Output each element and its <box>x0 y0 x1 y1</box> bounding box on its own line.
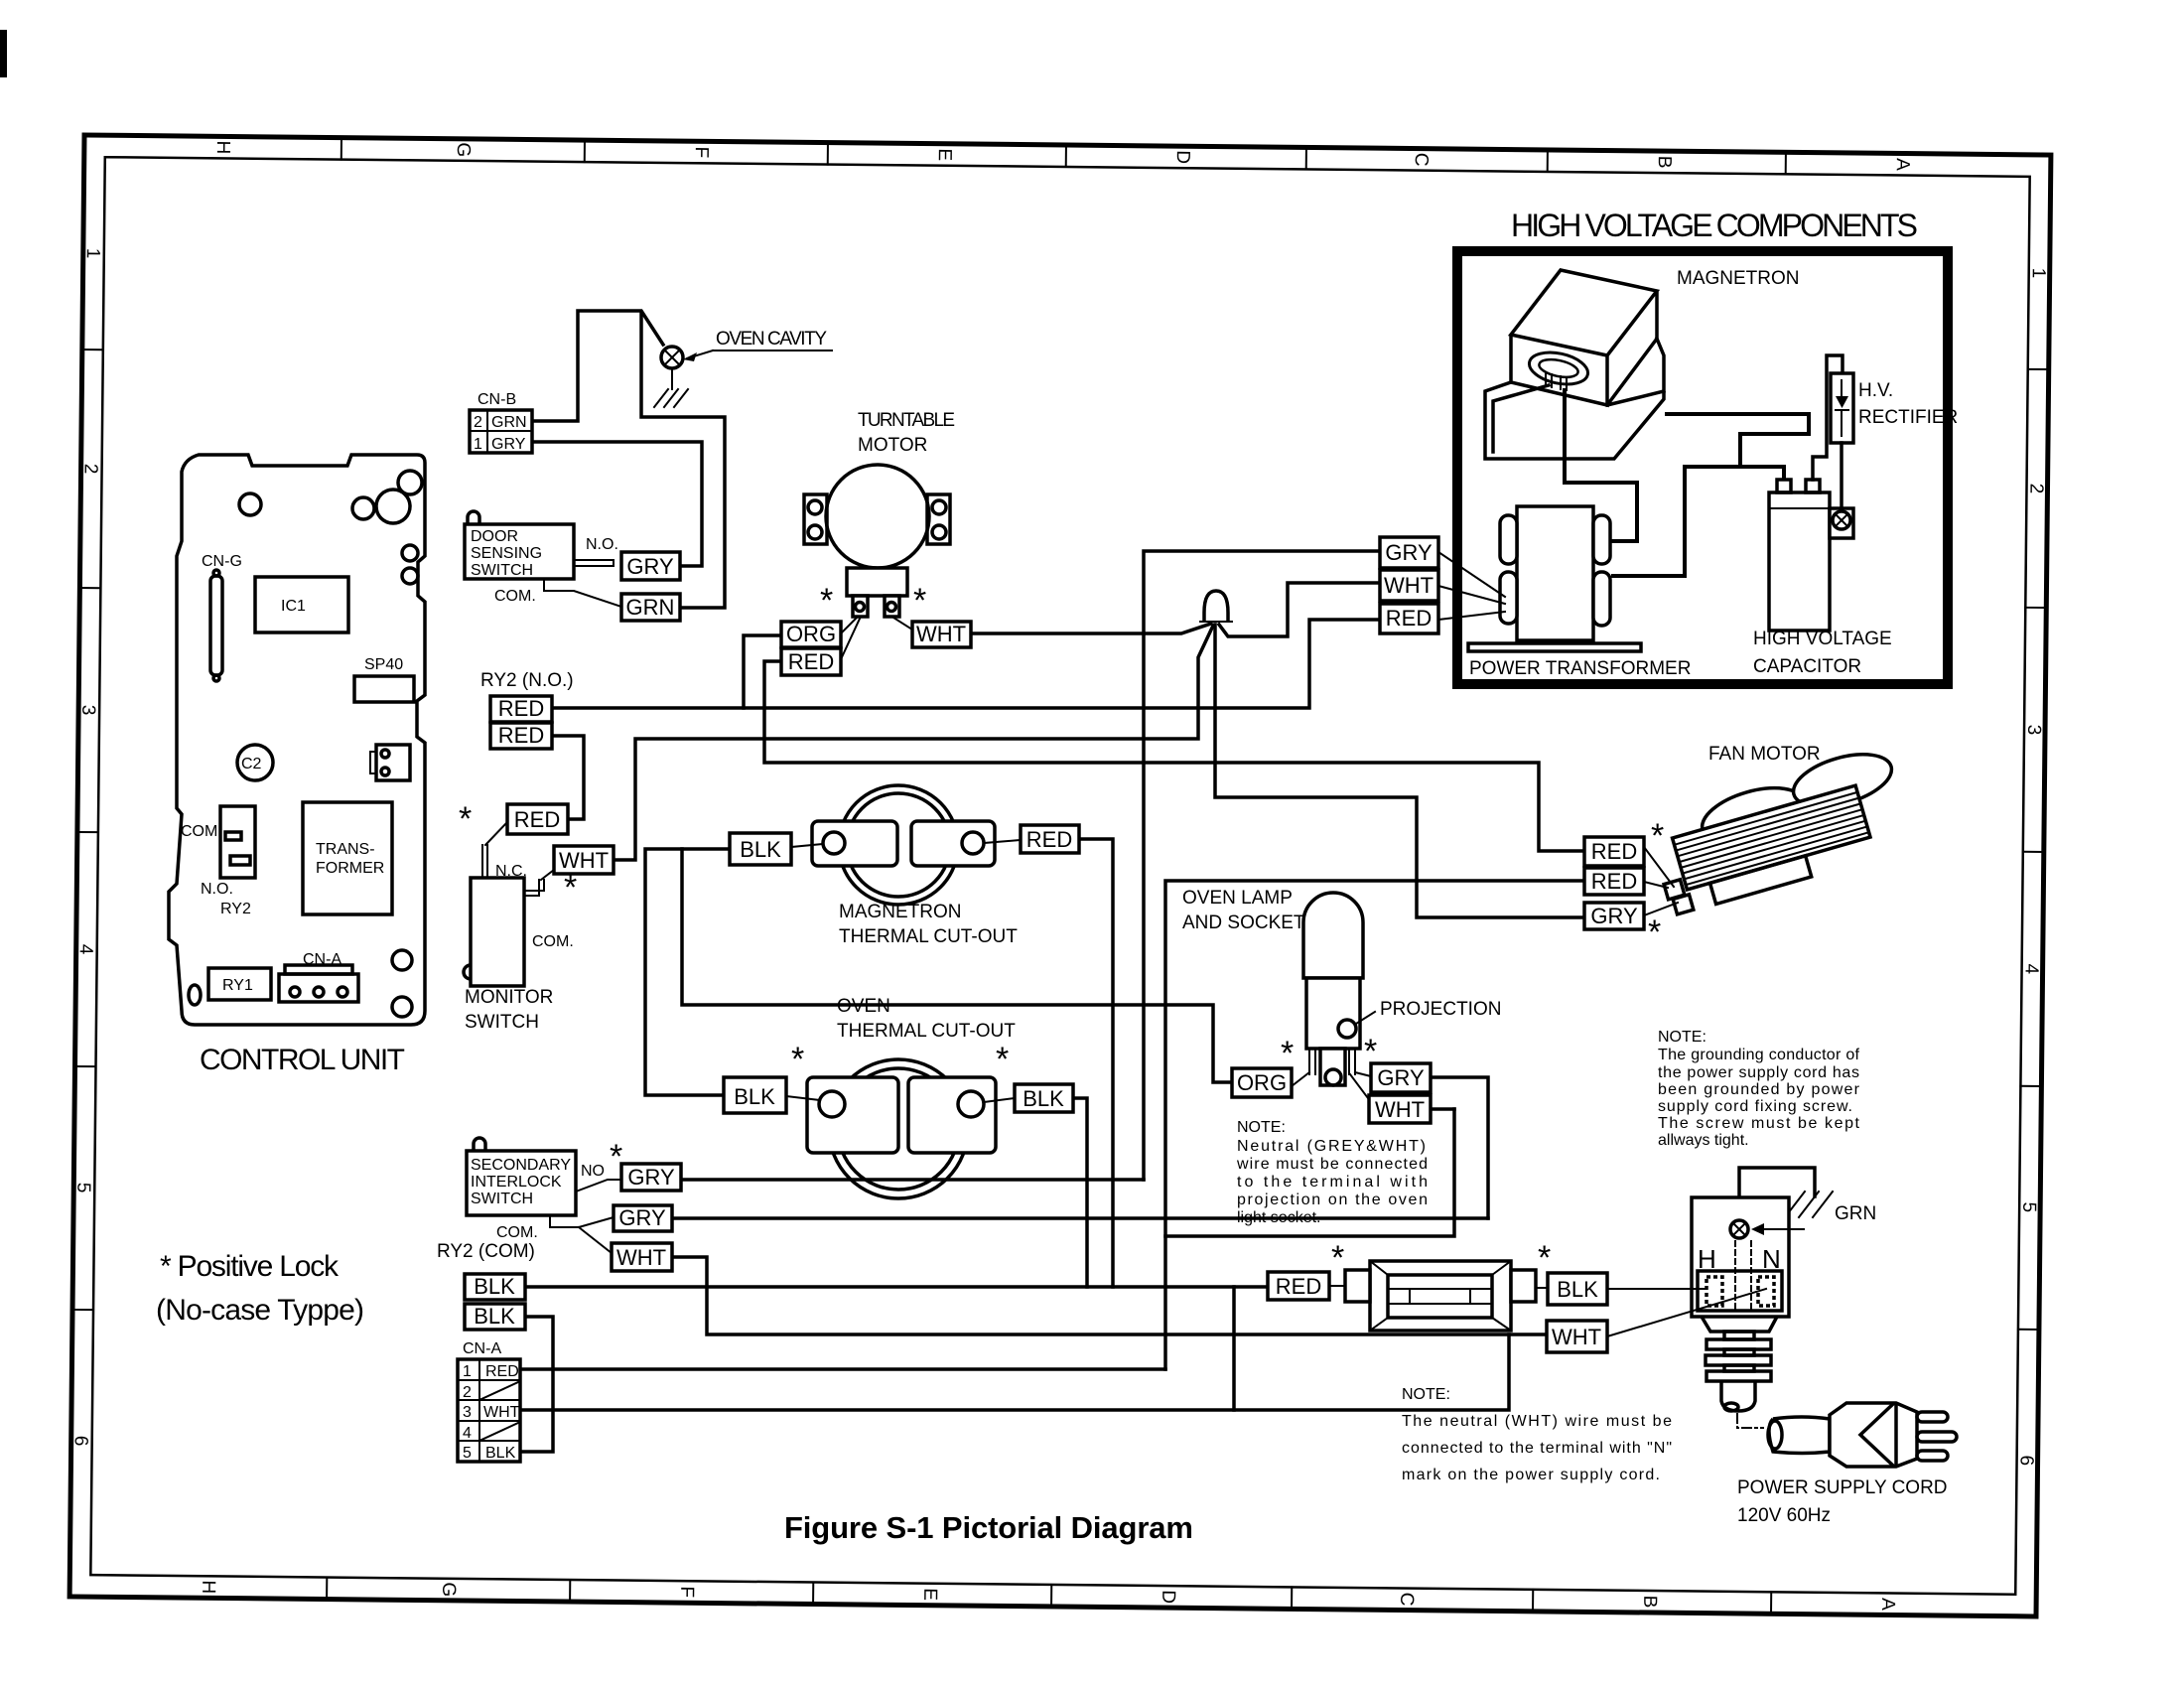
plug chevron <box>1860 1403 1896 1467</box>
svg-text:BLK: BLK <box>474 1274 515 1299</box>
svg-text:C: C <box>1396 1593 1417 1607</box>
svg-text:BLK: BLK <box>1023 1086 1064 1111</box>
svg-text:THERMAL CUT-OUT: THERMAL CUT-OUT <box>839 926 1018 947</box>
svg-text:RED: RED <box>1026 827 1072 852</box>
interlock NO lever <box>576 1180 621 1192</box>
oven cutout left terminal <box>807 1077 898 1153</box>
filter right terminal <box>1511 1270 1536 1302</box>
svg-text:N.O.: N.O. <box>586 536 618 553</box>
svg-text:RED: RED <box>485 1363 519 1380</box>
PCB hole top right large <box>376 490 410 523</box>
svg-text:RED: RED <box>498 696 544 721</box>
BLK box RY2COM 1 <box>465 1274 525 1300</box>
wire WHT to N terminal diagonal <box>1607 1289 1766 1336</box>
CN-A connector pcb <box>285 965 352 974</box>
svg-text:RED: RED <box>1591 839 1637 864</box>
wire lamp GRY return <box>1431 1077 1488 1218</box>
CN-A connector body <box>458 1359 520 1462</box>
wire BLK to H terminal <box>1607 1288 1706 1290</box>
svg-text:BLK: BLK <box>485 1445 516 1462</box>
capacitor terminals <box>1777 480 1791 492</box>
dash-dot wire to plug cord <box>1737 1414 1763 1428</box>
svg-text:5: 5 <box>2018 1201 2039 1212</box>
svg-text:H: H <box>198 1580 218 1594</box>
svg-text:COM.: COM. <box>181 823 222 840</box>
ORG box turntable <box>781 622 841 647</box>
svg-text:ORG: ORG <box>1237 1070 1287 1095</box>
PCB hole left <box>239 493 261 515</box>
svg-text:B: B <box>1654 156 1675 169</box>
RED box turntable <box>781 648 841 675</box>
cord flanges <box>1724 1332 1754 1339</box>
svg-text:RECTIFIER: RECTIFIER <box>1858 407 1958 428</box>
svg-text:RY2: RY2 <box>220 901 251 917</box>
svg-text:BLK: BLK <box>734 1084 775 1109</box>
svg-text:light socket.: light socket. <box>1237 1209 1320 1226</box>
svg-text:RED: RED <box>1591 869 1637 894</box>
receptacle screw <box>1730 1220 1748 1238</box>
svg-text:CONTROL UNIT: CONTROL UNIT <box>200 1044 405 1076</box>
link oven right BLK <box>984 1098 1015 1102</box>
monitor plunger <box>464 965 471 979</box>
svg-text:F: F <box>676 1586 697 1598</box>
svg-text:*: * <box>1648 913 1661 951</box>
magnetron thermal cutout disc <box>839 785 958 905</box>
svg-text:WHT: WHT <box>483 1404 520 1421</box>
link BLK to terminal <box>791 844 823 847</box>
svg-text:WHT: WHT <box>1375 1097 1425 1122</box>
PCB oval hole bottom left <box>189 985 201 1005</box>
BLK box plug <box>1548 1273 1607 1305</box>
border tick marks right <box>2018 369 2049 1330</box>
GRY box lamp <box>1371 1063 1431 1092</box>
svg-text:Neutral (GREY&WHT): Neutral (GREY&WHT) <box>1237 1138 1426 1155</box>
fan terminals <box>1664 880 1685 900</box>
border zone letters top <box>212 140 1913 172</box>
svg-text:RED: RED <box>498 723 544 748</box>
lead socket to WHT diagonal <box>1350 1074 1371 1102</box>
bulb base <box>1306 978 1360 1049</box>
PCB hole <box>398 471 422 494</box>
svg-text:GRN: GRN <box>491 414 527 431</box>
wire RY2NO RED2 to monitor RED <box>552 736 584 819</box>
link RED to filter <box>1329 1285 1345 1287</box>
receptacle neck <box>1702 1317 1777 1332</box>
svg-text:WHT: WHT <box>916 622 966 646</box>
svg-text:COM.: COM. <box>494 588 536 605</box>
RED box RY2NO 1 <box>490 696 552 722</box>
door switch COM lever <box>544 579 621 607</box>
svg-text:BLK: BLK <box>1557 1277 1598 1302</box>
transformer left coils <box>1500 515 1517 564</box>
ground symbol oven cavity <box>651 389 688 407</box>
svg-text:The grounding conductor of: The grounding conductor of <box>1658 1047 1860 1063</box>
receptacle body <box>1692 1197 1789 1317</box>
RY2 relay part <box>220 806 255 878</box>
PCB hole bottom <box>392 950 412 970</box>
svg-text:* Positive Lock: * Positive Lock <box>160 1250 340 1283</box>
svg-text:GRY: GRY <box>491 436 526 453</box>
NOTE neutral WHT plug <box>1402 1386 1672 1483</box>
wire nut to WHT power transformer <box>1219 583 1380 636</box>
SP40 part <box>354 676 414 702</box>
svg-text:POWER TRANSFORMER: POWER TRANSFORMER <box>1469 658 1691 679</box>
svg-text:N.C.: N.C. <box>495 863 527 880</box>
svg-text:RED: RED <box>1276 1274 1321 1299</box>
RED box magnetron cutout <box>1021 825 1079 853</box>
wire CN-B pin1 GRY to door sensing switch N.O. GRY <box>532 442 702 566</box>
svg-text:WHT: WHT <box>616 1245 666 1270</box>
H.V. rectifier body <box>1831 373 1853 443</box>
BLK box oven cutout left <box>724 1077 786 1113</box>
receptacle ground wire <box>1739 1168 1815 1224</box>
turntable left tab <box>804 494 827 544</box>
wire turntable RED to fan RED trunk <box>764 661 1584 851</box>
projection circle <box>1338 1020 1356 1038</box>
lead socket to GRY <box>1355 1072 1371 1076</box>
small part right <box>376 745 410 780</box>
monitor RED lever <box>482 822 507 878</box>
svg-text:GRY: GRY <box>1385 540 1433 565</box>
svg-text:RED: RED <box>1386 606 1432 631</box>
WHT box interlock <box>612 1243 672 1271</box>
border zone numbers right <box>2016 268 2049 1467</box>
svg-text:H: H <box>212 140 233 154</box>
svg-text:GRY: GRY <box>627 1165 675 1190</box>
svg-text:MAGNETRON: MAGNETRON <box>839 902 962 922</box>
svg-text:NO: NO <box>581 1163 605 1180</box>
wire oven cutout BLK right to BLK column <box>1073 1098 1087 1287</box>
link oven left BLK <box>786 1096 820 1100</box>
RED box power transformer <box>1380 604 1438 633</box>
svg-text:OVEN: OVEN <box>837 996 890 1017</box>
turntable base <box>847 568 907 596</box>
svg-text:mark on the power supply cor: mark on the power supply cord. <box>1402 1467 1660 1483</box>
svg-text:NOTE:: NOTE: <box>1658 1029 1706 1046</box>
WHT box power transformer <box>1380 570 1438 601</box>
svg-text:RY2 (COM): RY2 (COM) <box>437 1241 535 1262</box>
wire magnetron left pin <box>1493 385 1549 452</box>
svg-text:RED: RED <box>514 807 560 832</box>
CN-G connector <box>210 576 222 675</box>
svg-text:RED: RED <box>788 649 834 674</box>
inner border frame <box>90 157 2029 1595</box>
svg-text:6: 6 <box>2016 1455 2037 1466</box>
scan edge mark top-left <box>0 30 7 77</box>
wire turntable ORG drop to RED trunk <box>744 635 781 708</box>
svg-text:N.O.: N.O. <box>201 881 233 898</box>
RED box monitor <box>507 804 568 834</box>
RED box filter <box>1268 1272 1329 1300</box>
svg-text:allways tight.: allways tight. <box>1658 1132 1749 1149</box>
svg-text:SP40: SP40 <box>364 656 403 673</box>
wire interlock COM GRY <box>672 1216 1488 1220</box>
svg-text:4: 4 <box>463 1425 472 1442</box>
svg-text:*: * <box>564 869 577 907</box>
svg-text:SENSING: SENSING <box>471 545 542 562</box>
wire magnetron cutout RED drop <box>1079 839 1113 1287</box>
svg-text:WHT: WHT <box>1384 573 1433 598</box>
svg-text:RY2 (N.O.): RY2 (N.O.) <box>480 670 574 691</box>
ground symbol receptacle <box>1785 1192 1833 1217</box>
turntable right tab <box>927 494 950 544</box>
BLK box RY2COM 2 <box>465 1304 525 1330</box>
wire capacitor right terminal to rectifier <box>1813 355 1843 480</box>
oven cavity lamp lead <box>671 368 673 389</box>
svg-text:*: * <box>1331 1239 1344 1277</box>
svg-text:been grounded by power: been grounded by power <box>1658 1081 1860 1098</box>
wire interlock WHT to plug WHT <box>672 1257 1547 1334</box>
wire door GRN to oven cavity loop <box>641 314 725 608</box>
C2 capacitor <box>237 745 273 780</box>
wire secondary interlock GRY NO <box>681 1178 1144 1182</box>
svg-text:AND SOCKET: AND SOCKET <box>1182 912 1305 933</box>
wire CN-B pin2 GRN to oven cavity lamp <box>532 311 663 421</box>
RED box RY2NO 2 <box>490 723 552 749</box>
wire riser at lamp WHT column <box>1232 1287 1236 1410</box>
border zone letters bottom <box>198 1580 1898 1612</box>
link terminal to RED <box>984 840 1021 843</box>
cord stub <box>1721 1381 1755 1411</box>
wire magnetron center pin to transformer <box>1565 388 1637 541</box>
svg-text:SECONDARY: SECONDARY <box>471 1157 571 1174</box>
high voltage thick box <box>1457 251 1948 684</box>
door sensing switch body <box>465 524 574 579</box>
wire nut to monitor switch WHT <box>614 626 1213 860</box>
svg-text:NOTE:: NOTE: <box>1237 1119 1286 1136</box>
power plug body <box>1830 1403 1917 1467</box>
svg-text:3: 3 <box>77 705 98 716</box>
plug prongs <box>1917 1412 1948 1422</box>
svg-text:2: 2 <box>463 1384 472 1401</box>
svg-text:A: A <box>1892 158 1913 171</box>
wire oven lamp ORG feed <box>682 849 1232 1082</box>
svg-text:GRN: GRN <box>626 595 675 620</box>
svg-text:COM.: COM. <box>496 1224 538 1241</box>
control unit PCB outline <box>169 455 425 1025</box>
svg-text:E: E <box>919 1588 940 1601</box>
filter left terminal <box>1345 1270 1370 1302</box>
svg-text:FORMER: FORMER <box>316 860 384 877</box>
high voltage capacitor body <box>1769 492 1830 631</box>
RY1 part <box>208 968 271 1000</box>
svg-text:GRY: GRY <box>626 554 674 579</box>
oven cutout right terminal <box>908 1077 996 1153</box>
border zone numbers left <box>70 248 103 1447</box>
WHT box lamp <box>1369 1095 1431 1123</box>
svg-text:CN-B: CN-B <box>478 391 516 408</box>
svg-text:the power supply cord has: the power supply cord has <box>1658 1064 1859 1081</box>
svg-text:TRANS-: TRANS- <box>316 841 375 858</box>
GRN box door <box>621 594 680 621</box>
transformer lead fan lines <box>1438 552 1505 620</box>
wire magnetron cutout BLK left drop <box>645 849 730 1095</box>
svg-text:120V 60Hz: 120V 60Hz <box>1737 1505 1831 1526</box>
TRANS-FORMER part <box>303 802 392 914</box>
fan shaft <box>1784 791 1808 835</box>
svg-text:HIGH VOLTAGE COMPONENTS: HIGH VOLTAGE COMPONENTS <box>1511 208 1918 243</box>
svg-text:3: 3 <box>463 1404 472 1421</box>
GRY box door <box>621 552 680 580</box>
transformer right coils <box>1593 515 1610 564</box>
monitor NC lever <box>525 870 554 896</box>
rectifier diode symbol <box>1836 396 1848 408</box>
prong lead to WHT <box>893 618 912 630</box>
svg-text:The neutral (WHT) wire must be: The neutral (WHT) wire must be <box>1402 1413 1672 1430</box>
svg-text:*: * <box>1651 817 1664 855</box>
svg-text:PROJECTION: PROJECTION <box>1380 999 1501 1020</box>
fan propeller left <box>1696 777 1810 852</box>
svg-text:OVEN LAMP: OVEN LAMP <box>1182 888 1293 909</box>
svg-text:*: * <box>996 1041 1009 1078</box>
svg-text:CAPACITOR: CAPACITOR <box>1753 656 1861 677</box>
GRY box interlock NO <box>621 1164 681 1191</box>
svg-text:4: 4 <box>75 944 96 955</box>
GRY box power transformer <box>1380 537 1438 568</box>
svg-text:*: * <box>820 582 833 620</box>
CN-B connector <box>470 410 532 453</box>
svg-text:E: E <box>934 148 955 161</box>
secondary interlock switch body <box>467 1151 576 1215</box>
svg-text:1: 1 <box>82 248 103 259</box>
BLK box oven cutout right <box>1015 1084 1073 1112</box>
socket center <box>1320 1049 1345 1085</box>
wire lamp enclosure bottom <box>1165 1109 1454 1236</box>
svg-text:2: 2 <box>2025 484 2046 494</box>
magnetron cutout left terminal <box>812 821 897 866</box>
turntable motor body <box>826 465 929 568</box>
RED box fan 2 <box>1584 868 1644 895</box>
svg-text:*: * <box>913 582 926 620</box>
WHT box turntable <box>912 622 971 647</box>
IC1 <box>255 577 348 632</box>
prong lead to ORG <box>841 617 860 659</box>
wire fan RED2 lamp-enclosure top <box>1165 881 1584 1369</box>
svg-text:MAGNETRON: MAGNETRON <box>1677 268 1800 289</box>
NOTE neutral grey&wht <box>1236 1119 1428 1226</box>
svg-text:OVEN CAVITY: OVEN CAVITY <box>716 329 827 350</box>
oven lamp bulb <box>1303 893 1363 978</box>
interlock COM lever <box>550 1215 614 1253</box>
border tick marks top <box>341 138 1786 175</box>
magnetron 3D body <box>1511 270 1657 405</box>
svg-text:projection on the oven: projection on the oven <box>1237 1192 1428 1208</box>
border tick marks bottom <box>327 1578 1771 1614</box>
PCB hole <box>352 497 374 519</box>
svg-text:1: 1 <box>474 436 482 453</box>
BLK box magnetron cutout <box>730 833 791 865</box>
svg-text:A: A <box>1877 1598 1898 1611</box>
svg-text:F: F <box>691 146 712 158</box>
wire RY2NO RED to power transformer RED <box>552 620 1380 708</box>
svg-text:GRN: GRN <box>1835 1203 1876 1224</box>
svg-text:RY1: RY1 <box>222 977 253 994</box>
lead ORG to socket <box>1292 1072 1309 1086</box>
oven cavity lamp symbol <box>661 347 683 368</box>
border tick marks left <box>72 350 103 1310</box>
door switch plunger <box>468 511 479 524</box>
monitor switch body <box>471 878 524 986</box>
svg-text:5: 5 <box>463 1445 472 1462</box>
outer border frame <box>69 135 2051 1616</box>
svg-text:The screw must be kept: The screw must be kept <box>1658 1115 1860 1132</box>
WHT box monitor <box>554 846 614 874</box>
svg-text:GRY: GRY <box>618 1205 666 1230</box>
arrow to screw <box>1755 1228 1804 1230</box>
wire RY2COM BLK1 to noise filter RED <box>525 1285 1268 1289</box>
svg-text:4: 4 <box>2021 963 2042 974</box>
wire GRY power transformer to long vertical <box>1144 551 1380 1180</box>
magnetron dome capsule <box>1527 348 1591 389</box>
svg-text:(No-case Typpe): (No-case Typpe) <box>156 1294 364 1327</box>
power transformer body <box>1517 506 1593 640</box>
wire capacitor junction to transformer lower <box>1611 467 1740 576</box>
capacitor bracket with screw <box>1830 508 1853 538</box>
svg-text:CN-G: CN-G <box>202 553 242 570</box>
oven thermal cutout disc <box>829 1059 968 1198</box>
magnetron flange <box>1485 339 1664 459</box>
wire nut down to fan GRY riser <box>1215 625 1584 917</box>
wire nut junction <box>1204 591 1228 621</box>
svg-text:C2: C2 <box>241 756 262 772</box>
svg-text:supply cord fixing screw.: supply cord fixing screw. <box>1658 1098 1852 1115</box>
RED box fan 1 <box>1584 837 1644 866</box>
svg-text:3: 3 <box>2023 725 2044 736</box>
svg-text:G: G <box>453 142 474 157</box>
svg-text:TURNTABLE: TURNTABLE <box>858 410 955 431</box>
interlock plunger <box>474 1138 485 1151</box>
svg-text:2: 2 <box>80 464 101 475</box>
svg-text:D: D <box>1158 1590 1178 1604</box>
noise filter 3D body <box>1370 1261 1511 1331</box>
svg-text:NOTE:: NOTE: <box>1402 1386 1450 1403</box>
screw symbol <box>1833 511 1850 529</box>
svg-text:CN-A: CN-A <box>463 1340 501 1357</box>
svg-text:D: D <box>1172 150 1193 164</box>
svg-text:1: 1 <box>463 1363 472 1380</box>
svg-text:GRY: GRY <box>1377 1065 1425 1090</box>
socket prongs <box>1309 1049 1355 1074</box>
terminal dashed slots <box>1706 1277 1722 1306</box>
svg-text:*: * <box>791 1041 804 1078</box>
svg-text:ORG: ORG <box>786 622 836 646</box>
wire CN-A pin1 RED <box>520 1367 1165 1371</box>
wire rectifier to capacitor case screw <box>1840 443 1843 508</box>
svg-text:BLK: BLK <box>474 1304 515 1329</box>
turntable prongs <box>853 596 868 617</box>
svg-text:POWER SUPPLY CORD: POWER SUPPLY CORD <box>1737 1477 1948 1498</box>
GRY box interlock COM <box>614 1205 672 1231</box>
link filter to BLK <box>1536 1287 1548 1289</box>
WHT box plug <box>1547 1321 1607 1352</box>
wire turntable WHT to wire nut <box>971 624 1211 633</box>
svg-text:SWITCH: SWITCH <box>471 1191 533 1207</box>
svg-text:connected to the terminal with: connected to the terminal with "N" <box>1402 1440 1672 1457</box>
svg-text:GRY: GRY <box>1590 904 1638 928</box>
svg-text:MOTOR: MOTOR <box>858 435 927 456</box>
svg-text:SWITCH: SWITCH <box>471 562 533 579</box>
plug cord tube <box>1769 1417 1830 1454</box>
svg-text:INTERLOCK: INTERLOCK <box>471 1174 562 1191</box>
svg-text:H.V.: H.V. <box>1858 380 1893 401</box>
fan motor finned body <box>1673 785 1877 911</box>
svg-text:MONITOR: MONITOR <box>465 987 553 1008</box>
arrow to lamp <box>687 351 713 358</box>
receptacle terminal box <box>1698 1271 1782 1311</box>
ORG box lamp <box>1232 1068 1292 1097</box>
wire lamp WHT return <box>1431 1107 1454 1111</box>
svg-text:WHT: WHT <box>1552 1325 1601 1349</box>
